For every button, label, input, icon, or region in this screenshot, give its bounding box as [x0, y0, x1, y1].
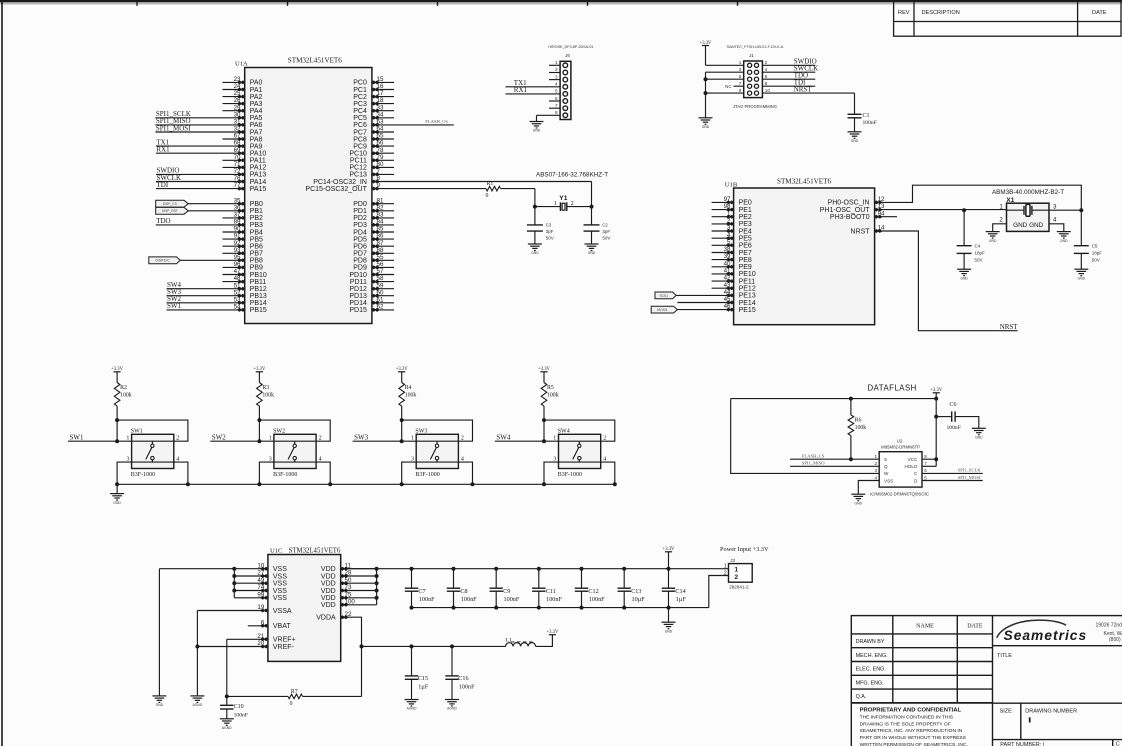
svg-text:PA3: PA3: [250, 101, 263, 108]
svg-text:17: 17: [377, 90, 384, 97]
svg-text:PA13: PA13: [250, 172, 267, 179]
svg-text:84: 84: [377, 219, 384, 226]
svg-text:100nF: 100nF: [546, 596, 562, 603]
wire J3 pin2: [709, 576, 729, 608]
svg-text:2: 2: [319, 436, 322, 442]
U1A pin 92 PB6: [223, 245, 245, 247]
svg-text:100nF: 100nF: [419, 596, 435, 603]
svg-text:PA9: PA9: [250, 143, 263, 150]
wire VREF+ down: [226, 639, 228, 696]
J1 pins 5/6: [748, 77, 752, 81]
svg-text:56: 56: [377, 261, 384, 268]
capacitor C13 10µF: [622, 567, 626, 571]
svg-text:9: 9: [739, 88, 742, 93]
svg-text:49: 49: [257, 577, 264, 584]
svg-text:PD5: PD5: [353, 236, 367, 243]
wire pin2 loop: [402, 420, 473, 441]
svg-text:DISP_RST: DISP_RST: [162, 209, 178, 213]
svg-text:GND: GND: [156, 703, 164, 707]
resistor R3 100k: [257, 383, 263, 407]
svg-text:PA5: PA5: [250, 115, 263, 122]
svg-text:C9: C9: [503, 588, 510, 595]
svg-text:GND: GND: [665, 629, 673, 633]
svg-text:STM32L451VET6: STM32L451VET6: [289, 548, 341, 555]
resistor R7 0: [227, 695, 288, 697]
switch SW2 B3F-1000: [274, 434, 316, 468]
svg-text:VSS: VSS: [273, 566, 287, 573]
svg-text:VSSA: VSSA: [273, 608, 292, 615]
svg-text:SW2: SW2: [212, 433, 227, 441]
net flag DISP_CS: [156, 200, 189, 207]
node C10: [225, 694, 229, 698]
U1B pin 43 PE12: [712, 287, 734, 289]
svg-text:52: 52: [234, 289, 241, 296]
svg-text:47: 47: [234, 268, 241, 275]
svg-text:PC2: PC2: [353, 94, 367, 101]
U1A pin 34 PC5: [372, 117, 394, 119]
svg-text:PC4: PC4: [353, 108, 367, 115]
svg-text:PC0: PC0: [353, 80, 367, 87]
svg-text:PE7: PE7: [739, 250, 752, 257]
svg-text:55: 55: [377, 254, 384, 261]
svg-text:86: 86: [377, 233, 384, 240]
svg-text:NRST: NRST: [851, 228, 871, 235]
svg-text:25: 25: [234, 90, 241, 97]
U1A pin 15 PC0: [372, 81, 394, 83]
svg-text:JTAG PROGRAMMING: JTAG PROGRAMMING: [733, 104, 777, 109]
svg-text:C2: C2: [602, 223, 608, 228]
svg-text:VDD: VDD: [321, 573, 336, 580]
svg-text:50V: 50V: [602, 236, 610, 241]
U1C pin 10 VSS: [234, 568, 268, 570]
svg-text:PA8: PA8: [250, 136, 263, 143]
U1C pin 6 VBAT: [248, 625, 268, 627]
svg-text:U1B: U1B: [725, 181, 738, 188]
svg-text:PC7: PC7: [353, 129, 367, 136]
U1B pin 97 PE0: [712, 201, 734, 203]
node SW4 pullup: [542, 418, 546, 422]
svg-text:24: 24: [234, 83, 241, 90]
U1A pin 8 PC14-OSC32_IN: [371, 180, 380, 184]
J6 pin 4: [506, 86, 561, 88]
svg-text:PB13: PB13: [250, 293, 267, 300]
svg-text:U1C: U1C: [270, 548, 283, 555]
svg-text:10: 10: [765, 88, 771, 93]
U1A pin 90 PB4: [223, 231, 245, 233]
capacitor C2 3pF: [591, 207, 593, 225]
svg-text:PB6: PB6: [250, 244, 263, 251]
svg-text:PA12: PA12: [250, 165, 267, 172]
svg-text:PE12: PE12: [739, 286, 756, 293]
svg-text:PC13: PC13: [349, 172, 367, 179]
svg-text:3: 3: [727, 225, 731, 232]
svg-text:B3F-1000: B3F-1000: [558, 472, 582, 478]
svg-text:(800) 975-8153: (800) 975-8153: [1109, 637, 1122, 643]
svg-text:VDD: VDD: [321, 602, 336, 609]
svg-text:60: 60: [377, 289, 384, 296]
svg-text:ABM3B-40.000MHZ-B2-T: ABM3B-40.000MHZ-B2-T: [992, 189, 1064, 196]
svg-text:15: 15: [377, 76, 384, 83]
svg-text:PB1: PB1: [250, 208, 263, 215]
svg-text:83: 83: [377, 212, 384, 219]
U1A pin 89 PB3: [156, 224, 245, 226]
node SW2 pin1: [257, 439, 261, 443]
svg-text:PD11: PD11: [350, 279, 367, 286]
svg-text:VSS: VSS: [273, 588, 287, 595]
svg-text:3: 3: [553, 456, 556, 462]
svg-text:C7: C7: [418, 588, 425, 595]
wire U2.VCC: [922, 458, 936, 460]
svg-text:33: 33: [377, 104, 384, 111]
svg-text:SW4: SW4: [558, 429, 570, 435]
ground below C3: [528, 244, 542, 251]
svg-text:R1: R1: [487, 181, 494, 187]
svg-text:18: 18: [377, 97, 384, 104]
svg-text:100nF: 100nF: [504, 596, 520, 603]
svg-text:Q: Q: [884, 464, 888, 469]
svg-text:PB0: PB0: [250, 201, 263, 208]
svg-text:4: 4: [603, 456, 606, 462]
capacitor C4 18pF: [963, 210, 965, 246]
svg-text:3: 3: [411, 456, 414, 462]
svg-text:B3F-1000: B3F-1000: [131, 472, 155, 478]
capacitor C9 100nF: [494, 567, 498, 571]
svg-text:DATAFLASH: DATAFLASH: [868, 383, 917, 392]
U1A pin 24 PA1: [223, 89, 245, 91]
svg-text:100nF: 100nF: [234, 712, 248, 718]
capacitor C16 100nF: [450, 644, 454, 648]
svg-text:DATE: DATE: [967, 624, 983, 630]
U1C pin 74 VSS: [234, 590, 268, 592]
U1A pin 72 PA13: [156, 173, 245, 175]
node SW4 pin1: [542, 439, 546, 443]
svg-text:PA0: PA0: [250, 80, 263, 87]
svg-text:PE8: PE8: [739, 257, 752, 264]
U1A pin 83 PD2: [372, 217, 394, 219]
ground switch rail: [110, 494, 124, 501]
wire pin3 to rail: [402, 462, 417, 484]
op-amp U1C MCU STM32L451VET6 (power): [268, 555, 341, 662]
node FLASH_CS junction: [849, 457, 853, 461]
svg-text:4: 4: [874, 475, 877, 480]
ground J1: [699, 118, 713, 125]
svg-text:1: 1: [874, 454, 877, 459]
svg-text:IC/M95M02-DRMN6TQ/8SOIC: IC/M95M02-DRMN6TQ/8SOIC: [870, 492, 929, 497]
svg-text:PD8: PD8: [353, 258, 367, 265]
svg-text:VCC: VCC: [908, 457, 918, 462]
svg-text:3: 3: [1053, 204, 1057, 211]
svg-text:SW3: SW3: [354, 433, 369, 441]
svg-text:VSS: VSS: [273, 581, 287, 588]
svg-text:SW4: SW4: [496, 433, 511, 441]
wire J1 ground bus: [705, 72, 707, 118]
wire pin3 to rail: [259, 462, 274, 484]
svg-text:SW1: SW1: [167, 302, 182, 310]
svg-text:50V: 50V: [546, 236, 554, 241]
U1C pin 11 VDD: [341, 568, 377, 570]
svg-text:C10: C10: [234, 704, 244, 710]
svg-text:C13: C13: [631, 588, 641, 595]
svg-text:PD4: PD4: [353, 229, 367, 236]
svg-text:99: 99: [257, 591, 264, 598]
ground below C4: [957, 269, 971, 276]
svg-text:VDD: VDD: [321, 581, 336, 588]
svg-text:45: 45: [724, 296, 731, 303]
ground below C1: [848, 132, 862, 139]
capacitor C6 100nF: [935, 399, 937, 460]
svg-text:3pF: 3pF: [546, 229, 554, 234]
svg-text:AGND: AGND: [447, 707, 457, 711]
U1C pin 19 VSSA: [197, 610, 268, 612]
wire VSS to GND: [159, 568, 234, 570]
wire SW2 input: [210, 440, 274, 442]
svg-text:PC15-OSC32_OUT: PC15-OSC32_OUT: [305, 186, 367, 193]
svg-text:SW2: SW2: [273, 429, 285, 435]
ground AGND C16: [445, 700, 459, 707]
wire pin2 loop: [544, 420, 615, 441]
svg-text:GND: GND: [531, 251, 539, 255]
wire pin4 to rail: [174, 462, 188, 484]
svg-text:PA6: PA6: [250, 122, 263, 129]
node VDDA analog rail: [360, 644, 364, 648]
svg-text:PB9: PB9: [250, 265, 263, 272]
wire U2.D SPI1_MOSI: [922, 480, 983, 482]
ground U2: [851, 494, 865, 501]
svg-text:PROPRIETARY AND CONFIDENTIAL: PROPRIETARY AND CONFIDENTIAL: [860, 708, 962, 714]
svg-text:63: 63: [377, 119, 384, 126]
svg-text:71: 71: [234, 161, 241, 168]
svg-text:53: 53: [234, 296, 241, 303]
svg-text:1: 1: [554, 201, 557, 207]
svg-text:U2: U2: [897, 438, 903, 443]
ground AGND C10: [220, 719, 234, 726]
U1A pin 53 PB14: [167, 302, 245, 304]
svg-text:65: 65: [377, 133, 384, 140]
svg-text:VREF+: VREF+: [273, 637, 296, 644]
svg-text:S: S: [884, 457, 887, 462]
svg-text:C5: C5: [1092, 244, 1098, 249]
wire VSS bus: [233, 569, 235, 598]
U1A pin 68 PA9: [156, 145, 245, 147]
ground AGND C15: [405, 700, 419, 707]
svg-text:37: 37: [234, 212, 241, 219]
svg-text:PART OR IN WHOLE WITHOUT THE E: PART OR IN WHOLE WITHOUT THE EXPRESS: [860, 735, 967, 741]
svg-text:10µF: 10µF: [632, 596, 646, 603]
U1A pin 33 PC4: [372, 110, 394, 112]
node X1 left / C4: [962, 208, 966, 212]
svg-text:PB5: PB5: [250, 236, 263, 243]
J6 pin 3: [549, 79, 560, 81]
U1B pin 12 PH0-OSC_IN: [874, 200, 883, 204]
svg-text:HIROSE_DF3-8P-2DSA-01: HIROSE_DF3-8P-2DSA-01: [548, 45, 593, 49]
svg-text:93: 93: [234, 247, 241, 254]
svg-text:39: 39: [724, 253, 731, 260]
svg-text:PE11: PE11: [739, 278, 756, 285]
ground below C6: [972, 428, 986, 435]
wire VDD rail: [341, 568, 722, 570]
svg-text:91: 91: [234, 233, 241, 240]
U1A pin 95 PB8: [180, 259, 245, 261]
svg-text:95: 95: [234, 254, 241, 261]
U1A pin 37 PB2: [223, 217, 245, 219]
svg-text:PC5: PC5: [353, 115, 367, 122]
svg-text:C6: C6: [950, 402, 957, 408]
U1C pin 27 VSS: [234, 575, 268, 577]
U1A pin 87 PD6: [372, 245, 394, 247]
U1A pin 32 PA7: [155, 131, 244, 133]
svg-text:2: 2: [765, 60, 768, 65]
J1 pins 9/10: [748, 91, 752, 95]
svg-text:MECH. ENG.: MECH. ENG.: [856, 653, 888, 659]
X1 crystal symbol: [1007, 209, 1025, 211]
node SW3 pin1: [400, 439, 404, 443]
U1A pin 9 PC15-OSC32_OUT: [371, 187, 380, 191]
J6 pin 1: [549, 64, 560, 66]
wire pin3 to rail: [544, 462, 559, 484]
svg-text:100nF: 100nF: [461, 596, 477, 603]
svg-text:46: 46: [724, 303, 731, 310]
wire PC15-OSC32_OUT to R1: [372, 188, 486, 190]
U1B pin 39 PE8: [712, 259, 734, 261]
svg-text:GND: GND: [1060, 239, 1068, 243]
svg-text:DESCRIPTION: DESCRIPTION: [922, 10, 960, 16]
svg-text:HOLD: HOLD: [905, 464, 918, 469]
svg-text:1: 1: [411, 436, 414, 442]
svg-text:2: 2: [999, 217, 1003, 224]
svg-text:PB14: PB14: [250, 300, 267, 307]
U1A pin 16 PC1: [372, 89, 394, 91]
svg-text:PD1: PD1: [353, 208, 367, 215]
svg-text:PD7: PD7: [353, 251, 367, 258]
svg-text:1: 1: [555, 60, 558, 65]
U1A pin 64 PC7: [372, 131, 394, 133]
capacitor C5 18pF: [1080, 210, 1082, 246]
svg-text:PD0: PD0: [353, 201, 367, 208]
svg-text:4: 4: [765, 67, 768, 72]
U1B pin 94 PH3-BOOT0: [874, 215, 883, 219]
U1A pin 23 PA0: [223, 81, 245, 83]
svg-text:R7: R7: [291, 689, 298, 695]
svg-text:AGND: AGND: [407, 707, 417, 711]
svg-text:PE14: PE14: [739, 300, 756, 307]
U1A pin 77 PA15: [156, 188, 245, 190]
wire VSSA to AGND: [196, 611, 198, 696]
U1C pin 28 VDD: [341, 575, 377, 577]
svg-text:PA10: PA10: [250, 151, 267, 158]
U1C pin 22 VDDA: [340, 615, 349, 619]
svg-text:20: 20: [257, 640, 264, 647]
svg-text:SW3: SW3: [415, 429, 427, 435]
svg-text:GND: GND: [855, 501, 863, 505]
U1A pin 96 PB9: [223, 266, 245, 268]
svg-text:R2: R2: [120, 385, 127, 391]
svg-text:PD2: PD2: [353, 215, 367, 222]
svg-text:PH1-OSC_OUT: PH1-OSC_OUT: [820, 207, 871, 214]
svg-text:100nF: 100nF: [459, 684, 475, 691]
svg-text:2: 2: [727, 218, 731, 225]
svg-text:FLASH_CS: FLASH_CS: [425, 119, 448, 124]
svg-text:76: 76: [234, 175, 241, 182]
wire U2.C SPI1_SCLK: [922, 472, 983, 474]
svg-text:58: 58: [377, 275, 384, 282]
svg-text:SPI1_MISO: SPI1_MISO: [802, 461, 825, 466]
switch SW1 B3F-1000: [132, 434, 174, 468]
capacitor C14 1µF: [667, 567, 671, 571]
svg-text:79: 79: [377, 154, 384, 161]
svg-text:PA11: PA11: [250, 158, 266, 165]
svg-text:C11: C11: [546, 588, 556, 595]
svg-text:282841-2: 282841-2: [729, 585, 749, 590]
svg-text:6: 6: [765, 74, 768, 79]
svg-text:51: 51: [234, 282, 241, 289]
capacitor C7 100nF: [410, 567, 414, 571]
svg-text:PA4: PA4: [250, 108, 263, 115]
resistor R1 0 ohm: [486, 186, 501, 191]
svg-text:7: 7: [924, 461, 927, 466]
node X1 right: [1079, 208, 1083, 212]
svg-text:PD3: PD3: [353, 222, 367, 229]
wire R1 to node: [501, 188, 535, 190]
svg-text:PD15: PD15: [349, 307, 367, 314]
svg-text:8: 8: [555, 110, 558, 115]
svg-text:PC14-OSC32_IN: PC14-OSC32_IN: [313, 179, 367, 186]
svg-text:43: 43: [724, 282, 731, 289]
svg-text:MOSI1: MOSI1: [657, 308, 667, 312]
svg-text:5: 5: [555, 89, 558, 94]
node SW1 pin1: [115, 439, 119, 443]
U1B pin 41 PE10: [712, 273, 734, 275]
svg-text:DISP/D/C: DISP/D/C: [156, 259, 171, 263]
svg-text:PE13: PE13: [739, 293, 756, 300]
svg-text:AGND: AGND: [193, 703, 203, 707]
svg-text:0: 0: [486, 193, 489, 199]
U1A pin 85 PD4: [372, 231, 394, 233]
J6 pin 2: [549, 72, 560, 74]
U1C pin 21 VREF+: [227, 638, 268, 640]
svg-text:78: 78: [377, 147, 384, 154]
U1B pin 14 NRST: [874, 229, 883, 233]
svg-text:PC12: PC12: [349, 165, 367, 172]
wire pin2 loop: [117, 420, 188, 441]
J6 pin 8: [537, 114, 561, 116]
wire pin4 to rail: [316, 462, 330, 484]
svg-text:R6: R6: [855, 417, 862, 423]
U1A pin 51 PB12: [167, 288, 245, 290]
svg-text:100k: 100k: [405, 392, 417, 398]
node SW3 pullup: [400, 418, 404, 422]
svg-text:U1A: U1A: [235, 60, 248, 67]
svg-text:VREF-: VREF-: [273, 644, 295, 651]
svg-text:PB10: PB10: [250, 272, 267, 279]
X1 pin4 to ground: [1049, 224, 1064, 232]
svg-text:C15: C15: [418, 675, 428, 682]
U1A pin 7 PC13: [372, 173, 394, 175]
svg-text:PB2: PB2: [250, 215, 263, 222]
svg-text:2: 2: [176, 436, 179, 442]
svg-text:R4: R4: [405, 385, 412, 391]
svg-text:VSS: VSS: [273, 573, 287, 580]
svg-text:87: 87: [377, 240, 384, 247]
svg-text:5: 5: [924, 475, 927, 480]
svg-text:PD12: PD12: [349, 286, 367, 293]
U1A pin 36 PB1: [188, 210, 244, 212]
svg-text:PC8: PC8: [353, 136, 367, 143]
svg-text:57: 57: [377, 268, 384, 275]
svg-text:SPI1_MOSI: SPI1_MOSI: [958, 475, 981, 480]
U1A pin 58 PD11: [372, 281, 394, 283]
svg-text:3: 3: [269, 456, 272, 462]
svg-text:64: 64: [377, 126, 384, 133]
